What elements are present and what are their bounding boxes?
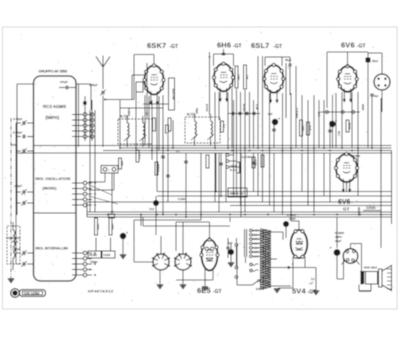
svg-text:50/45: 50/45 (348, 123, 352, 130)
svg-text:SERIES: SERIES (357, 207, 360, 216)
svg-text:REG. OSCILLATORE: REG. OSCILLATORE (36, 177, 72, 181)
svg-text:RC3 AGMS: RC3 AGMS (43, 104, 66, 109)
svg-text:4,7M: 4,7M (255, 104, 258, 110)
svg-text:B.PAS: B.PAS (242, 104, 245, 112)
svg-text:Z2528: Z2528 (366, 206, 376, 210)
svg-text:-GT: -GT (357, 44, 366, 50)
svg-text:10,0: 10,0 (149, 207, 155, 211)
svg-text:(56PA): (56PA) (46, 115, 60, 120)
svg-text:6SK7: 6SK7 (147, 41, 166, 50)
svg-text:25μF: 25μF (335, 239, 342, 243)
svg-text:F: F (292, 262, 294, 266)
svg-text:1840: 1840 (111, 224, 115, 230)
svg-text:Kpf: Kpf (374, 95, 378, 98)
svg-text:0,25 M/A: 0,25 M/A (242, 156, 252, 159)
svg-text:-GT: -GT (170, 44, 179, 50)
svg-text:K3049: K3049 (256, 287, 264, 291)
svg-text:0,1M/A: 0,1M/A (178, 197, 186, 201)
svg-text:0,25 M/A: 0,25 M/A (295, 108, 298, 118)
svg-text:33PV: 33PV (335, 235, 342, 239)
svg-text:6V6: 6V6 (341, 41, 355, 50)
svg-text:50,7: 50,7 (337, 131, 341, 137)
svg-text:r: r (108, 168, 109, 172)
svg-text:0,1: 0,1 (145, 112, 148, 116)
svg-text:110V: 110V (253, 254, 260, 258)
svg-text:50pF: 50pF (195, 108, 198, 114)
svg-text:B.MED: B.MED (127, 108, 130, 116)
svg-text:RAD 4912: RAD 4912 (364, 266, 378, 270)
svg-text:3Kpf: 3Kpf (372, 59, 378, 63)
svg-text:TRIMA: TRIMA (90, 261, 98, 264)
svg-text:8pF: 8pF (268, 112, 273, 116)
svg-text:50K: 50K (120, 161, 124, 166)
svg-text:5V4: 5V4 (292, 287, 306, 296)
svg-text:6H6: 6H6 (217, 41, 231, 50)
svg-text:8μF: 8μF (228, 241, 233, 245)
svg-text:-GT: -GT (213, 289, 222, 295)
svg-text:6SL7: 6SL7 (251, 41, 269, 50)
svg-text:1750: 1750 (237, 74, 241, 80)
svg-text:6V6: 6V6 (338, 199, 351, 206)
svg-text:B.R.: B.R. (308, 126, 312, 132)
svg-text:8 B.U.: 8 B.U. (138, 152, 142, 160)
svg-text:0,5: 0,5 (311, 277, 315, 281)
svg-text:0,1: 0,1 (176, 150, 180, 153)
svg-text:-GT: -GT (274, 44, 283, 50)
svg-text:GT: GT (343, 207, 350, 212)
svg-text:AB MD: AB MD (89, 254, 97, 257)
svg-text:1840: 1840 (96, 224, 100, 230)
svg-text:1362: 1362 (301, 125, 305, 131)
svg-text:GRUPPO AF 2553: GRUPPO AF 2553 (39, 70, 68, 74)
svg-text:50/60: 50/60 (361, 104, 364, 111)
svg-text:4,7M: 4,7M (254, 160, 258, 167)
svg-text:5 B.U.: 5 B.U. (157, 165, 161, 173)
svg-text:-GT: -GT (233, 44, 242, 50)
svg-text:COND.VAR.: COND.VAR. (6, 236, 21, 240)
svg-text:B.PAS: B.PAS (205, 104, 208, 112)
svg-text:REG. INTERVALLINI: REG. INTERVALLINI (36, 247, 68, 251)
svg-text:247pF: 247pF (60, 80, 68, 84)
svg-text:22PF: 22PF (289, 217, 296, 221)
svg-text:B.R.: B.R. (317, 112, 320, 117)
svg-text:HF46TA912: HF46TA912 (88, 289, 114, 294)
svg-text:8-80pF: 8-80pF (13, 131, 23, 135)
svg-text:470: 470 (11, 143, 16, 147)
svg-text:(MODE): (MODE) (43, 187, 58, 191)
svg-text:GM 12/64: GM 12/64 (24, 292, 39, 296)
svg-text:T.6140: T.6140 (103, 254, 111, 257)
svg-text:K.413: K.413 (230, 168, 237, 172)
svg-text:17K: 17K (245, 75, 249, 80)
svg-text:0,1: 0,1 (222, 125, 226, 129)
svg-text:+: + (126, 231, 128, 235)
svg-text:UN.B. K.413: UN.B. K.413 (230, 193, 245, 196)
svg-text:3-30pF: 3-30pF (13, 117, 23, 121)
svg-text:SENTAM: SENTAM (172, 88, 176, 100)
